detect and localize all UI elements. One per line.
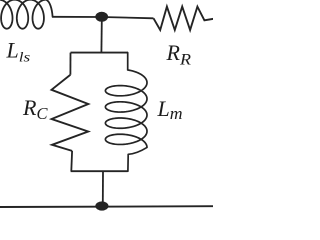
wire <box>102 171 104 203</box>
wire <box>0 205 213 208</box>
wire <box>100 20 102 53</box>
inductor L_m <box>105 53 147 172</box>
resistor R_C <box>52 75 89 151</box>
wire <box>102 17 154 18</box>
node B <box>95 201 108 210</box>
wire <box>53 16 102 18</box>
resistor R_R <box>154 7 214 30</box>
svg-text:Lm: Lm <box>157 96 183 123</box>
svg-text:RR: RR <box>166 40 192 69</box>
wire <box>70 151 73 171</box>
node A <box>95 12 108 22</box>
svg-text:Lls: Lls <box>6 38 31 65</box>
wire <box>71 52 129 54</box>
wire <box>71 170 128 172</box>
wire <box>69 53 71 75</box>
svg-text:RC: RC <box>22 95 48 123</box>
inductor L_ls <box>0 0 53 29</box>
